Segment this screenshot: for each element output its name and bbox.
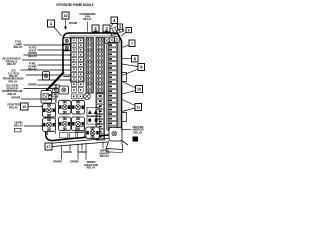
fuse strip C center-right bbox=[96, 38, 105, 94]
horn relay mark bbox=[15, 128, 22, 132]
svg-text:SPARE: SPARE bbox=[53, 160, 62, 164]
arrow below callout 3 bbox=[105, 31, 108, 34]
relay module M5 bbox=[58, 117, 71, 131]
arrow below callout 2 bbox=[94, 31, 97, 34]
wire leader SPARE b2 bbox=[69, 144, 71, 150]
wire leader starter relay bbox=[28, 106, 41, 108]
svg-text:10: 10 bbox=[137, 88, 141, 92]
label SPARE b1 bbox=[53, 160, 62, 164]
label STARTER RELAY bbox=[7, 103, 20, 110]
wire leader WIPER ON/OFF RELAY bbox=[102, 142, 104, 149]
label HORN RELAY bbox=[14, 121, 23, 128]
heated mirror relay module (3D) bbox=[106, 128, 123, 153]
label FUEL PUMP RELAY bbox=[28, 62, 37, 71]
callout 10 bbox=[136, 86, 143, 93]
svg-text:SPARE: SPARE bbox=[63, 150, 72, 154]
label ADJUSTABLE PEDALS RELAY bbox=[2, 57, 20, 66]
wire leaders callout 11 bbox=[122, 100, 135, 106]
svg-text:11: 11 bbox=[136, 106, 140, 110]
interior shelf line bbox=[64, 76, 71, 78]
small marker box 12 bbox=[133, 137, 139, 142]
wire leader callout 8 bbox=[122, 58, 132, 60]
callout 4 bbox=[111, 17, 118, 24]
svg-text:15: 15 bbox=[22, 105, 26, 109]
IPM case outer outline bbox=[46, 33, 122, 141]
callout 1 bbox=[48, 20, 55, 27]
svg-text:RELAY: RELAY bbox=[28, 67, 37, 71]
wire leader WIPER HIGH/LOW RELAY bbox=[85, 143, 87, 160]
svg-text:SPARE: SPARE bbox=[28, 83, 37, 87]
callout 5 bbox=[118, 24, 123, 29]
svg-text:RELAY: RELAY bbox=[7, 92, 16, 96]
svg-text:17: 17 bbox=[46, 145, 50, 149]
fuse strip D right column bbox=[108, 43, 118, 131]
fuse boxes with triangle marks bbox=[87, 107, 100, 124]
wire leader heated mirror relay bbox=[121, 129, 131, 131]
fuse strip A left pair column bbox=[71, 38, 85, 83]
svg-text:RELAY: RELAY bbox=[28, 54, 37, 58]
corner relay X boxes bbox=[104, 37, 119, 44]
label SPARE low bbox=[11, 96, 20, 100]
wire leaders callout 10 bbox=[122, 82, 136, 89]
label SPARE b3 bbox=[70, 160, 79, 164]
label WIPER ON/OFF RELAY bbox=[99, 149, 110, 158]
relay module M7 bbox=[86, 127, 100, 139]
relay module M2 bbox=[43, 118, 56, 132]
wire leader from callout 16 bbox=[65, 19, 67, 27]
label CONDENSER FAN RELAY bbox=[80, 13, 96, 21]
svg-text:SPARE: SPARE bbox=[70, 160, 79, 164]
connector tab right edge lower bbox=[122, 113, 127, 122]
callout 7 bbox=[129, 40, 135, 47]
fuse pair rows extra bbox=[71, 82, 83, 92]
svg-text:RELAY: RELAY bbox=[86, 166, 95, 170]
relay K5 left wall (starter relay socket) bbox=[41, 91, 52, 104]
fuse strip C lower larger cells bbox=[96, 93, 105, 140]
callout 11 bbox=[135, 104, 142, 111]
relay K3 left wall upper bbox=[43, 72, 50, 81]
wire leader callout 7 bbox=[122, 45, 129, 48]
label SPARE top bbox=[69, 22, 78, 25]
callout 9 bbox=[138, 64, 145, 71]
svg-text:7: 7 bbox=[131, 42, 133, 46]
svg-text:RELAY: RELAY bbox=[14, 123, 23, 127]
svg-text:RELAY: RELAY bbox=[83, 18, 92, 21]
svg-text:SPARE: SPARE bbox=[69, 22, 78, 25]
svg-text:RELAY: RELAY bbox=[8, 79, 17, 83]
wire leader callout 5 bbox=[116, 29, 118, 33]
fuse strip B center bbox=[86, 38, 94, 94]
relay module M4 bbox=[72, 100, 85, 114]
IPM interior left wall bbox=[54, 84, 56, 134]
svg-text:16: 16 bbox=[63, 14, 67, 18]
wire leader callout 1 bbox=[54, 27, 62, 36]
svg-text:RELAY: RELAY bbox=[9, 105, 18, 109]
svg-text:RELAY: RELAY bbox=[13, 45, 22, 49]
wire leader callout 6 bbox=[121, 32, 126, 36]
svg-text:INTEGRATED POWER MODULE: INTEGRATED POWER MODULE bbox=[57, 3, 95, 7]
wire leader horn relay bbox=[24, 125, 41, 127]
callout 6 bbox=[126, 28, 132, 33]
IPM bottom skirt edge bbox=[48, 138, 128, 146]
fuse pair row above module M4 bbox=[71, 94, 83, 99]
circular connector bbox=[84, 93, 91, 100]
wire leader condenser fan relay bbox=[87, 22, 89, 32]
wire leader SPARE b4 bbox=[81, 143, 83, 150]
relay K1 top-left a bbox=[63, 38, 70, 44]
wire leaders callout 9 bbox=[122, 64, 138, 67]
svg-text:5: 5 bbox=[119, 25, 121, 29]
connector tab right edge upper bbox=[122, 73, 127, 82]
svg-text:RELAY: RELAY bbox=[133, 130, 142, 134]
callout 3 bbox=[103, 25, 110, 32]
label SPARE b4 bbox=[78, 150, 87, 154]
label FOG LAMP RELAY bbox=[13, 40, 22, 49]
callout 8 bbox=[132, 56, 139, 63]
callout 2 bbox=[92, 25, 99, 32]
svg-text:RELAY: RELAY bbox=[7, 62, 16, 66]
divider wall between strips bbox=[105, 43, 107, 131]
wire leader SPARE b1 bbox=[61, 145, 63, 159]
svg-text:6: 6 bbox=[128, 29, 130, 33]
callout 15 bbox=[21, 103, 29, 110]
bottom interior boxes bbox=[60, 127, 85, 138]
label A/C CLUTCH RELAY bbox=[8, 69, 19, 78]
relay K4 bbox=[59, 86, 69, 94]
label AUTO SHUT DOWN RELAY bbox=[28, 46, 37, 58]
svg-text:SPARE: SPARE bbox=[11, 96, 20, 100]
relay K2 top-left b bbox=[63, 45, 70, 51]
label WIPER HIGH/LOW RELAY bbox=[84, 160, 98, 169]
callout 16 bbox=[62, 12, 69, 19]
connector block top-right corner bbox=[107, 25, 124, 36]
label SPARE mid bbox=[28, 83, 37, 87]
wire leader SPARE b3 bbox=[77, 144, 79, 160]
label TRANSMISSION RELAY bbox=[2, 77, 23, 84]
relay module M6 bbox=[72, 117, 85, 131]
fuse boxes lower-left bbox=[53, 88, 59, 97]
wire leader callout 4 bbox=[112, 24, 113, 28]
svg-text:RELAY: RELAY bbox=[100, 154, 109, 158]
left label leader wires bbox=[24, 44, 70, 46]
relay module M3 bbox=[58, 100, 71, 114]
callout 17 bbox=[45, 143, 52, 150]
label HEATED MIRROR RELAY bbox=[132, 125, 143, 134]
label SPARE b2 bbox=[63, 150, 72, 154]
relay module M1 bbox=[43, 104, 56, 118]
label OXYGEN SENSOR DOWNSTREAM RELAY bbox=[2, 84, 23, 96]
